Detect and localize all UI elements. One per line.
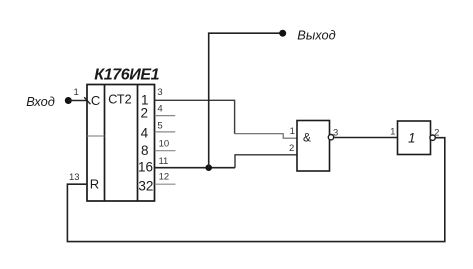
- pin number labels 3 4 5 10 11 12 13: [69, 87, 169, 183]
- svg-text:2: 2: [140, 105, 148, 120]
- wire gate 1 out to inverter in: [334, 137, 397, 139]
- svg-text:1: 1: [390, 127, 395, 138]
- svg-text:11: 11: [158, 156, 168, 167]
- svg-text:16: 16: [138, 160, 153, 175]
- svg-text:4: 4: [141, 126, 149, 141]
- svg-text:C: C: [91, 93, 100, 108]
- stub pin 12: [155, 183, 176, 185]
- svg-text:4: 4: [157, 103, 162, 114]
- wire to gate input 1: [235, 134, 297, 139]
- stub pin 4: [155, 115, 175, 117]
- svg-text:2: 2: [434, 128, 439, 139]
- svg-text:R: R: [90, 177, 99, 192]
- stub pin 5: [155, 131, 175, 133]
- counter U1 K176IE1 body: [87, 85, 155, 202]
- svg-text:СТ2: СТ2: [108, 92, 131, 106]
- svg-text:10: 10: [159, 138, 170, 149]
- svg-text:1: 1: [73, 87, 78, 98]
- inversion bubble DD1: [328, 135, 333, 140]
- wire 16 to gate input 2: [235, 155, 297, 168]
- wire pin11 output 16: [155, 167, 235, 169]
- svg-text:13: 13: [69, 172, 80, 183]
- svg-text:32: 32: [138, 178, 153, 193]
- wire feedback inverter out to R: [67, 138, 444, 242]
- svg-text:Вход: Вход: [26, 94, 55, 109]
- node Выход (output terminal): [279, 30, 286, 37]
- svg-text:8: 8: [141, 143, 149, 158]
- stub pin 10: [155, 150, 176, 152]
- svg-text:12: 12: [159, 171, 170, 182]
- svg-text:1: 1: [408, 131, 416, 146]
- svg-text:3: 3: [157, 87, 162, 98]
- inverter DD2 (1): [398, 121, 431, 155]
- svg-text:&: &: [303, 130, 311, 144]
- svg-text:1: 1: [290, 126, 295, 137]
- left column divider: [87, 135, 105, 137]
- wire input to C: [68, 100, 88, 102]
- node Вход (input terminal): [65, 97, 72, 104]
- inversion bubble DD2: [430, 135, 435, 140]
- wire junction to Выход: [209, 33, 280, 168]
- svg-text:5: 5: [157, 120, 162, 131]
- node junction: [205, 164, 212, 171]
- svg-text:2: 2: [289, 143, 294, 154]
- svg-text:К176ИЕ1: К176ИЕ1: [94, 66, 159, 83]
- svg-text:Выход: Выход: [297, 27, 335, 42]
- wire pin3 output 1: [155, 100, 235, 133]
- dynamic input slash at C: [84, 97, 90, 104]
- output weight labels 1 2 4 8 16 32: [138, 93, 153, 194]
- NAND gate DD1 (&): [297, 121, 330, 172]
